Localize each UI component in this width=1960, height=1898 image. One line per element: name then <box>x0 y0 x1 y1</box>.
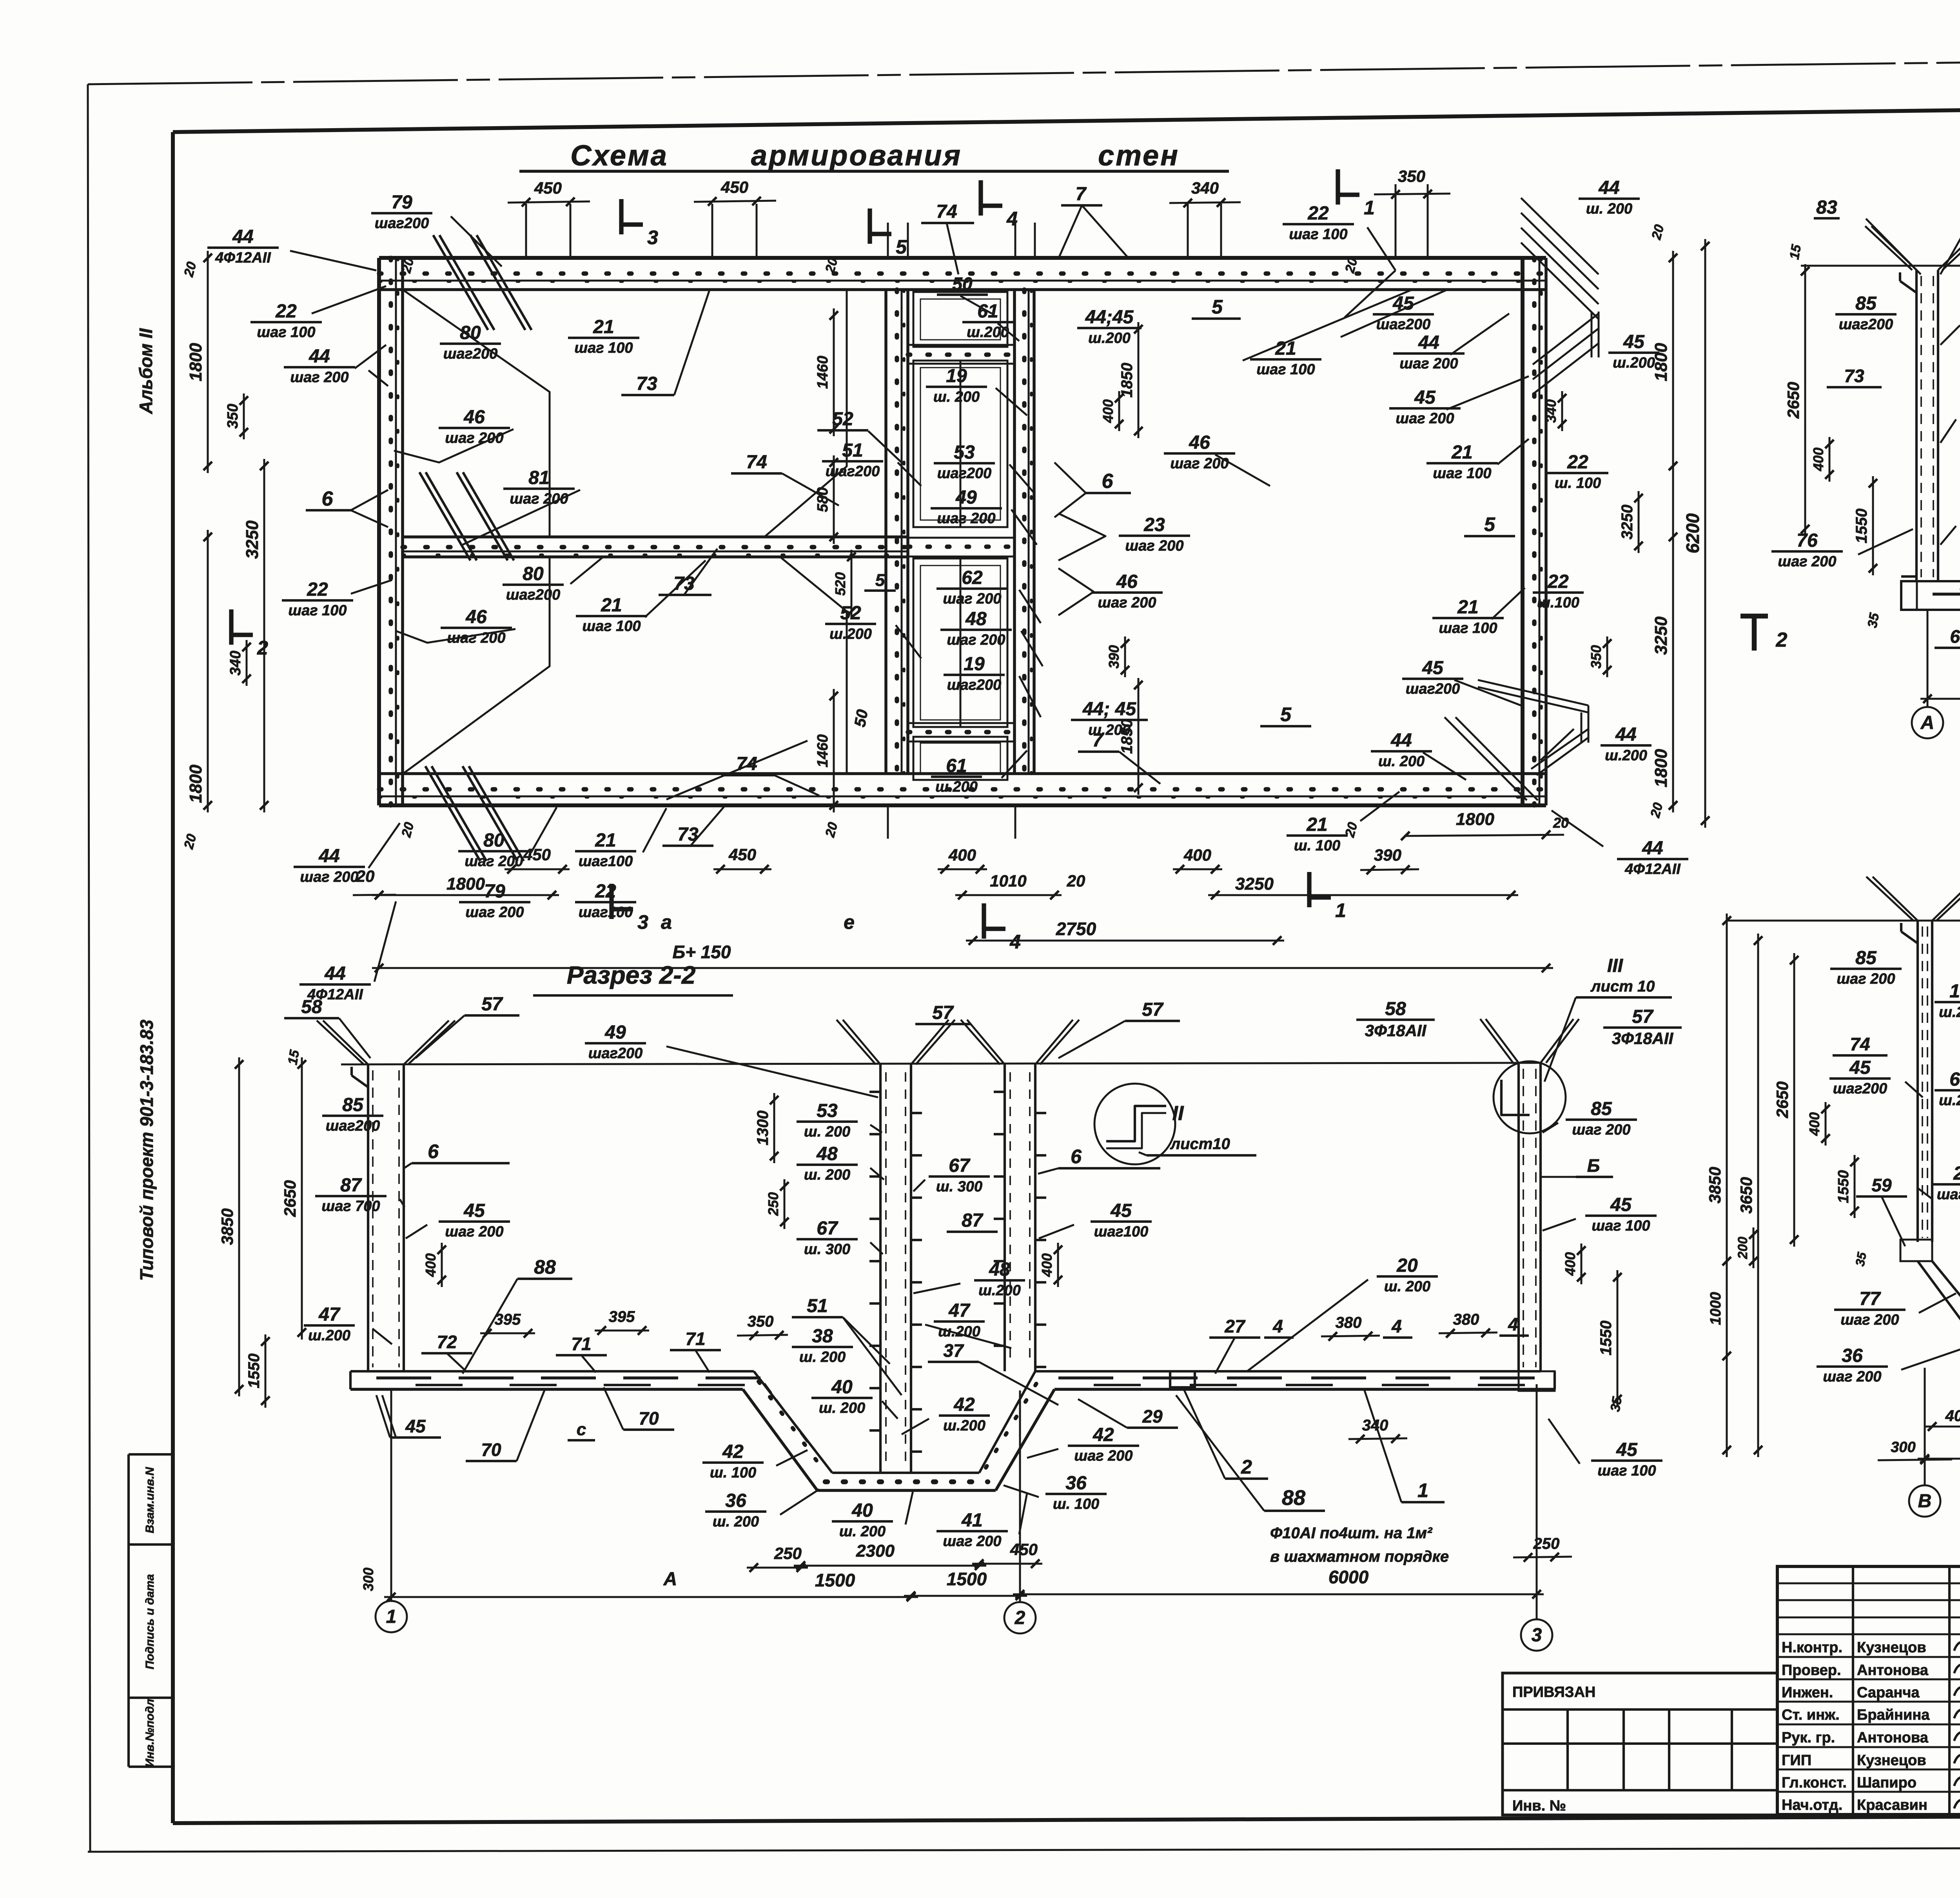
label 45/шаг200 <box>1829 1057 1923 1097</box>
t450c <box>523 845 551 864</box>
svg-text:ш.200: ш.200 <box>829 626 872 642</box>
label 5s <box>864 571 896 591</box>
svg-text:шаг 200: шаг 200 <box>1399 355 1458 372</box>
svg-text:45: 45 <box>1616 1439 1638 1460</box>
svg-text:Кузнецов: Кузнецов <box>1857 1639 1926 1656</box>
svg-text:67: 67 <box>949 1155 971 1176</box>
dim s2 450b <box>972 1559 1042 1568</box>
svg-text:21: 21 <box>593 317 614 337</box>
svg-text:5: 5 <box>1484 513 1495 535</box>
label 21/ш. 100 <box>1287 792 1399 854</box>
dim 1800b <box>372 874 559 899</box>
dim 1800L1 <box>186 251 212 473</box>
s2 88 note <box>1176 1395 1449 1565</box>
priv text <box>1512 1684 1595 1700</box>
svg-text:395: 395 <box>495 1311 521 1328</box>
svg-text:шаг200: шаг200 <box>1376 316 1431 333</box>
s2 57M2 <box>1058 999 1180 1058</box>
svg-text:85: 85 <box>342 1095 364 1115</box>
dim 1010b <box>955 891 1062 899</box>
svg-text:1460: 1460 <box>815 356 831 389</box>
svg-text:46: 46 <box>465 607 487 627</box>
svg-text:ш. 200: ш. 200 <box>839 1523 886 1540</box>
svg-text:400: 400 <box>1562 1252 1578 1276</box>
svg-text:88: 88 <box>1282 1486 1305 1510</box>
s2 35R <box>1608 1395 1625 1413</box>
s4 left slope <box>1918 1261 1960 1351</box>
svg-text:III: III <box>1607 955 1624 976</box>
svg-text:шаг200: шаг200 <box>443 346 498 362</box>
svg-text:Разрез 2-2: Разрез 2-2 <box>567 961 696 989</box>
svg-text:380: 380 <box>1453 1311 1479 1328</box>
wall plan bottom wall <box>379 774 1546 805</box>
dim B150 <box>372 964 1553 972</box>
svg-text:1500: 1500 <box>947 1569 987 1589</box>
stamp role Нач.отд. <box>1782 1797 1842 1813</box>
label 44-412 br <box>0 0 0 0</box>
label 45/ш.200 <box>1608 332 1659 371</box>
label 49/шаг 200 <box>931 487 1002 527</box>
dim 6200R <box>1682 239 1710 828</box>
svg-text:35: 35 <box>1608 1395 1625 1413</box>
svg-text:4: 4 <box>1391 1316 1402 1336</box>
section mark 1 <box>1338 169 1375 219</box>
svg-text:79: 79 <box>484 881 505 902</box>
s4 top line <box>1727 920 1960 922</box>
label 6r <box>1054 462 1131 517</box>
svg-text:450: 450 <box>1010 1540 1038 1559</box>
stamp name Шапиро <box>1857 1775 1916 1791</box>
outer border left <box>88 84 90 1852</box>
t450b <box>1010 1540 1038 1559</box>
svg-text:380: 380 <box>1336 1314 1362 1331</box>
bar bundle top-right <box>1521 198 1599 394</box>
label 52a <box>817 409 868 430</box>
dim s3 3000a <box>1920 677 1960 703</box>
dim s4 3650 <box>1737 934 1762 1457</box>
label 85/шаг 200 <box>1543 1099 1637 1138</box>
svg-text:4Ф12АII: 4Ф12АII <box>1624 861 1681 877</box>
svg-text:48: 48 <box>816 1144 838 1164</box>
svg-text:77: 77 <box>1859 1289 1881 1309</box>
svg-text:22: 22 <box>275 301 297 322</box>
label 61/ш.200 <box>931 756 982 795</box>
section mark 3 <box>621 199 658 248</box>
svg-text:1550: 1550 <box>1853 509 1870 544</box>
dim 3250r <box>1619 491 1643 553</box>
dim 350L <box>225 393 248 439</box>
dim s4 1000L <box>1708 1254 1731 1363</box>
s2 300b <box>360 1556 391 1601</box>
label 76/шаг 200 <box>1940 502 1960 545</box>
s2 57M <box>915 1002 970 1024</box>
dim s4 400L <box>1806 1102 1830 1146</box>
svg-text:40: 40 <box>831 1377 853 1398</box>
svg-text:шаг 200: шаг 200 <box>510 491 568 507</box>
dim 400b <box>938 865 987 874</box>
svg-text:лист10: лист10 <box>1170 1135 1230 1153</box>
label 51/шаг200 <box>822 440 883 480</box>
label 83 <box>1814 197 1921 274</box>
label 44/ш. 200 <box>1579 178 1640 217</box>
dim 350t <box>1374 167 1450 259</box>
label 84 <box>1940 197 1960 274</box>
dim 1800L2 <box>203 530 212 812</box>
svg-text:шаг 200: шаг 200 <box>445 1224 503 1240</box>
svg-text:шаг100: шаг100 <box>579 853 633 870</box>
svg-text:69: 69 <box>1950 626 1960 647</box>
svg-text:Ст. инж.: Ст. инж. <box>1782 1707 1840 1723</box>
wall s2 right wall <box>994 1064 1046 1371</box>
strip stubs <box>888 223 1035 839</box>
svg-text:400: 400 <box>1806 1112 1822 1136</box>
svg-text:340: 340 <box>1543 399 1559 423</box>
svg-text:ПРИВЯЗАН: ПРИВЯЗАН <box>1512 1684 1595 1700</box>
label 61/ш.200 <box>1935 1069 1960 1109</box>
s4 300L <box>1878 1439 1952 1464</box>
dim 1460a <box>815 308 838 436</box>
svg-text:в шахматном порядке: в шахматном порядке <box>1270 1548 1449 1565</box>
svg-text:70: 70 <box>481 1439 501 1460</box>
svg-text:400: 400 <box>1810 448 1826 471</box>
label 47/ш.200 <box>925 1300 1011 1348</box>
label 21/шаг 100 <box>576 595 647 634</box>
svg-text:340: 340 <box>227 651 244 675</box>
s2 c-lbl <box>568 1420 595 1440</box>
priv rows <box>1503 1709 1777 1790</box>
label 79/шаг200 <box>371 192 502 266</box>
svg-text:3250: 3250 <box>243 520 262 559</box>
svg-text:36: 36 <box>725 1490 746 1511</box>
label 21/шаг 100 <box>1432 597 1504 636</box>
label 85/шаг200 <box>1835 293 1896 333</box>
svg-text:6: 6 <box>1102 470 1114 493</box>
wall plan left wall <box>379 258 403 805</box>
label 73u <box>621 290 710 395</box>
svg-text:шаг 200: шаг 200 <box>1778 553 1836 570</box>
svg-text:шаг 200: шаг 200 <box>1823 1369 1881 1385</box>
label 80/шаг200 <box>503 564 564 603</box>
stamp role Ст. инж. <box>1782 1707 1840 1723</box>
dim 2750 <box>966 919 1284 945</box>
label 45/шаг 100 <box>1543 1195 1657 1234</box>
svg-text:29: 29 <box>1142 1406 1163 1427</box>
svg-text:1800: 1800 <box>1651 343 1671 381</box>
svg-text:ш.200: ш.200 <box>1088 330 1131 346</box>
label 22/ш.100 <box>1533 571 1584 611</box>
svg-text:шаг 100: шаг 100 <box>288 602 347 619</box>
label 74l <box>731 452 839 506</box>
svg-text:50: 50 <box>851 708 871 728</box>
svg-text:3850: 3850 <box>218 1208 236 1245</box>
plan cell 4 <box>913 737 1007 780</box>
svg-text:1800: 1800 <box>1456 810 1494 829</box>
wall plan middle wall <box>403 537 908 557</box>
t1010 <box>990 872 1085 890</box>
svg-text:5: 5 <box>1280 703 1292 725</box>
s2 27 <box>1209 1316 1260 1374</box>
svg-text:ш. 100: ш. 100 <box>1555 475 1601 491</box>
svg-text:48: 48 <box>965 609 987 629</box>
svg-text:45: 45 <box>463 1200 485 1221</box>
stamp name Антонова <box>1857 1662 1929 1679</box>
svg-text:1800: 1800 <box>186 765 205 803</box>
svg-text:шаг200: шаг200 <box>937 465 992 482</box>
svg-text:шаг 100: шаг 100 <box>582 618 641 634</box>
svg-text:шаг200: шаг200 <box>1406 681 1460 697</box>
dim s4 3000a <box>1918 1438 1960 1463</box>
svg-text:58: 58 <box>1385 999 1406 1019</box>
label 23/шаг 200 <box>1058 513 1190 560</box>
small 20 i <box>1649 223 1667 241</box>
wall plan strip right wall <box>1014 290 1034 774</box>
svg-text:шаг100: шаг100 <box>579 904 633 921</box>
svg-text:шаг 200: шаг 200 <box>447 630 505 646</box>
svg-text:80: 80 <box>460 323 481 343</box>
svg-text:80: 80 <box>523 564 544 584</box>
label 21/шаг 100 <box>1426 442 1498 482</box>
svg-text:6: 6 <box>322 488 334 510</box>
svg-text:3250: 3250 <box>1651 616 1671 655</box>
svg-text:250: 250 <box>774 1544 802 1563</box>
s2 57L <box>416 994 519 1058</box>
s3 73L <box>1827 366 1882 387</box>
small 20 b <box>822 256 841 275</box>
svg-text:шаг200: шаг200 <box>1839 316 1893 333</box>
label 73a <box>659 573 711 595</box>
svg-text:57: 57 <box>932 1002 954 1023</box>
svg-text:2: 2 <box>1014 1608 1025 1628</box>
funnel s2 left top <box>317 1021 455 1087</box>
svg-text:44: 44 <box>1418 332 1439 353</box>
svg-text:21: 21 <box>1275 338 1296 359</box>
label 5c <box>1260 703 1311 726</box>
label 36/ш. 200 <box>705 1489 819 1530</box>
s4 74L <box>1833 1034 1887 1055</box>
label 22/шаг 100 <box>282 579 353 619</box>
svg-text:ш. 300: ш. 300 <box>936 1178 982 1195</box>
svg-text:1850: 1850 <box>1118 719 1136 754</box>
plan leaders extra <box>312 286 1574 982</box>
svg-text:3650: 3650 <box>1737 1177 1755 1213</box>
svg-text:3: 3 <box>637 911 648 933</box>
svg-text:45: 45 <box>1623 332 1645 352</box>
label 45/шаг 200 <box>406 1200 510 1240</box>
label 22/шаг100 <box>575 881 636 921</box>
svg-text:II: II <box>1172 1102 1184 1125</box>
s2 floor notch <box>1170 1371 1195 1387</box>
svg-text:15: 15 <box>285 1048 302 1066</box>
stamp name Красавин <box>1857 1797 1927 1813</box>
svg-text:71: 71 <box>571 1334 591 1354</box>
svg-text:61: 61 <box>946 756 967 776</box>
svg-text:1800: 1800 <box>446 874 485 894</box>
svg-text:67: 67 <box>817 1218 838 1239</box>
svg-text:шаг 100: шаг 100 <box>1592 1218 1650 1234</box>
svg-text:79: 79 <box>391 192 412 213</box>
svg-text:шаг100: шаг100 <box>1937 1186 1960 1203</box>
svg-text:Инв.№подл: Инв.№подл <box>143 1699 156 1767</box>
dim 400a <box>1100 391 1123 431</box>
svg-text:ш. 200: ш. 200 <box>933 389 980 405</box>
label 45/шаг 200 <box>1389 387 1461 427</box>
svg-text:350: 350 <box>1398 167 1425 185</box>
dim s2 400RR <box>1562 1244 1586 1284</box>
svg-text:20: 20 <box>1067 872 1085 890</box>
svg-text:20: 20 <box>356 867 375 885</box>
svg-text:44;45: 44;45 <box>1085 307 1134 328</box>
svg-text:57: 57 <box>1632 1006 1654 1027</box>
T2 mark <box>1740 616 1788 651</box>
svg-text:390: 390 <box>1374 846 1401 864</box>
dim 390b <box>1360 846 1419 874</box>
dim s2 1550R <box>1597 1270 1622 1406</box>
svg-text:2: 2 <box>1241 1456 1252 1478</box>
priv inv <box>1512 1798 1566 1814</box>
svg-text:44: 44 <box>324 963 345 984</box>
svg-text:85: 85 <box>1591 1099 1612 1119</box>
svg-text:Схема: Схема <box>570 139 668 172</box>
svg-text:шаг 200: шаг 200 <box>1840 1312 1899 1328</box>
svg-text:с: с <box>577 1420 586 1439</box>
signature 5 <box>1954 1732 1960 1744</box>
svg-text:ш. 200: ш. 200 <box>804 1124 850 1140</box>
svg-text:49: 49 <box>955 487 977 508</box>
margin text album <box>136 328 156 414</box>
svg-text:44: 44 <box>232 227 253 247</box>
small 20 h <box>1342 821 1361 839</box>
svg-text:38: 38 <box>812 1326 833 1347</box>
svg-text:46: 46 <box>463 407 485 428</box>
svg-text:51: 51 <box>842 440 863 461</box>
svg-text:шаг 700: шаг 700 <box>321 1198 380 1215</box>
dim 340r <box>1543 391 1566 431</box>
s2 2-lbl <box>1184 1389 1268 1479</box>
svg-text:74: 74 <box>1850 1034 1870 1054</box>
axis s2 ax1 <box>376 1389 407 1632</box>
funnel s4 left top <box>1866 877 1960 943</box>
axis s4 V <box>1909 1368 1940 1517</box>
svg-text:шаг 200: шаг 200 <box>1170 455 1229 472</box>
t3250L <box>243 520 262 559</box>
dim s2 1550L <box>245 1334 270 1408</box>
label 44/4Ф12АII <box>207 227 376 270</box>
bar bundle bottom-right <box>1445 680 1588 800</box>
svg-text:5: 5 <box>875 571 885 590</box>
svg-text:В: В <box>1918 1491 1932 1512</box>
dim 350rr <box>1588 636 1612 677</box>
svg-text:ш.200: ш.200 <box>308 1327 350 1344</box>
label 22/шаг 100 <box>250 301 322 341</box>
svg-text:ш. 300: ш. 300 <box>804 1241 850 1258</box>
s2 4a <box>1264 1316 1294 1338</box>
svg-text:ш. 200: ш. 200 <box>1378 753 1425 770</box>
svg-text:52: 52 <box>840 603 861 624</box>
tB150 <box>673 942 731 962</box>
dim 1800R1 <box>1651 251 1677 473</box>
dim s2 1500a <box>384 1593 918 1601</box>
dim 3250b <box>1208 874 1518 899</box>
svg-text:21: 21 <box>1451 442 1472 463</box>
s3 top line <box>1801 265 1960 267</box>
svg-text:22: 22 <box>1567 452 1588 473</box>
t400b <box>948 846 976 864</box>
strip cross wall 1 <box>908 345 1014 364</box>
svg-text:72: 72 <box>437 1332 457 1352</box>
svg-text:Шапиро: Шапиро <box>1857 1775 1916 1791</box>
svg-text:450: 450 <box>534 179 562 197</box>
svg-text:36: 36 <box>1842 1345 1863 1366</box>
label 87/шаг 700 <box>1940 301 1960 345</box>
s4 left console <box>1900 1240 1932 1261</box>
svg-text:36: 36 <box>1065 1473 1087 1494</box>
label 42/ш.200 <box>902 1394 990 1434</box>
svg-text:шаг 200: шаг 200 <box>445 430 503 446</box>
label 44/4Ф12АII <box>1552 810 1688 877</box>
s2 340b <box>1348 1417 1407 1443</box>
svg-text:450: 450 <box>720 178 748 196</box>
wall s2 left wall <box>368 1064 404 1371</box>
svg-text:520: 520 <box>832 572 848 596</box>
dim 390r <box>1106 636 1129 677</box>
axis s3 A <box>1912 609 1943 738</box>
svg-text:2750: 2750 <box>1056 919 1096 939</box>
svg-text:44: 44 <box>309 346 330 367</box>
svg-text:73: 73 <box>1844 366 1864 386</box>
svg-text:61: 61 <box>977 301 998 322</box>
s2 71b <box>670 1329 721 1372</box>
dim s3 2650L <box>1784 264 1809 536</box>
s2 top line <box>341 1063 1541 1064</box>
s2 detail circle III <box>1494 955 1672 1133</box>
label 22/ш. 100 <box>1547 452 1608 491</box>
label 5b <box>1464 513 1515 536</box>
svg-text:62: 62 <box>962 567 983 588</box>
dim s4 400a <box>1925 1407 1960 1431</box>
label 48/шаг 200 <box>940 609 1012 648</box>
section mark 5 <box>870 208 907 258</box>
label 50b <box>851 708 871 728</box>
signature 1 <box>1954 1642 1960 1654</box>
s2 4c <box>1499 1314 1529 1336</box>
svg-text:лист 10: лист 10 <box>1590 978 1655 995</box>
svg-text:Брайнина: Брайнина <box>1857 1707 1930 1723</box>
label 52/ш.200 <box>825 603 876 642</box>
label 67/ш. 300 <box>797 1218 883 1258</box>
svg-text:19: 19 <box>964 654 985 674</box>
svg-text:50: 50 <box>952 274 973 294</box>
svg-text:шаг 200: шаг 200 <box>300 869 358 885</box>
rebar bars top-left <box>433 235 532 330</box>
s2 detail circle II <box>1094 1084 1256 1164</box>
s2 70a <box>466 1389 545 1461</box>
svg-text:шаг 200: шаг 200 <box>943 1533 1001 1550</box>
svg-text:ш.200: ш.200 <box>967 324 1009 341</box>
dim s2 6000 <box>1013 1590 1544 1599</box>
t1800R2 <box>1651 749 1671 787</box>
svg-text:45: 45 <box>405 1416 426 1436</box>
label 74b <box>721 754 819 796</box>
svg-text:шаг200: шаг200 <box>326 1118 380 1134</box>
svg-text:2650: 2650 <box>1784 382 1802 419</box>
label 40/ш. 200 <box>811 1377 898 1419</box>
label 85/шаг200 <box>322 1095 383 1134</box>
label 44; 45/ш.200 <box>1071 699 1148 738</box>
small 20 d <box>181 260 200 279</box>
margin text inv <box>143 1699 156 1767</box>
svg-text:87: 87 <box>962 1210 984 1231</box>
s4 35L <box>1853 1251 1869 1267</box>
